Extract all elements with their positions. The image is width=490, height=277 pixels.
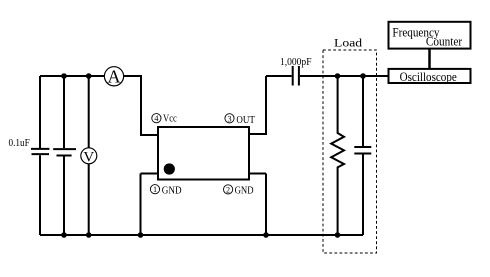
svg-text:1,000pF: 1,000pF: [280, 57, 312, 68]
svg-text:GND: GND: [162, 185, 182, 197]
svg-text:3: 3: [227, 114, 231, 123]
svg-text:Oscilloscope: Oscilloscope: [400, 70, 458, 84]
svg-text:GND: GND: [235, 185, 254, 197]
svg-text:1: 1: [153, 185, 157, 194]
svg-text:Load: Load: [334, 36, 362, 50]
svg-text:Counter: Counter: [426, 34, 463, 48]
svg-text:A: A: [108, 67, 121, 87]
svg-text:V: V: [83, 150, 94, 166]
svg-text:2: 2: [226, 185, 230, 194]
svg-text:Vcc: Vcc: [163, 114, 177, 125]
svg-text:4: 4: [154, 114, 158, 123]
svg-text:0.1uF: 0.1uF: [9, 138, 31, 149]
svg-text:OUT: OUT: [236, 114, 255, 126]
